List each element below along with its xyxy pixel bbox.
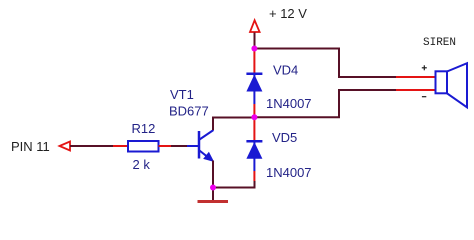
- transistor VT1: [187, 130, 214, 159]
- label plus terminal: [422, 65, 427, 70]
- wire ground stem: [212, 188, 214, 201]
- transistor VT1 emitter arrowhead: [204, 153, 213, 162]
- node J2 junction dot: [251, 114, 257, 120]
- diode VD4: [246, 74, 262, 104]
- wire J1 to siren plus: [255, 49, 397, 78]
- wire VT1 emitter down: [212, 161, 214, 188]
- svg-text:VD4: VD4: [273, 63, 298, 78]
- node J1 junction dot: [251, 46, 257, 52]
- svg-text:2 k: 2 k: [133, 157, 151, 172]
- svg-text:1N4007: 1N4007: [266, 96, 312, 111]
- wire power stem: [254, 33, 256, 49]
- svg-text:VD5: VD5: [272, 130, 297, 145]
- pin siren minus: [396, 89, 436, 91]
- pin R12 right: [159, 145, 172, 147]
- diode VD5 pin top: [253, 119, 255, 141]
- wire VT1 collector to node J2: [213, 118, 255, 131]
- speaker LS1 horn: [447, 63, 467, 107]
- diode VD5 pin bottom: [253, 171, 255, 181]
- svg-text:BD677: BD677: [169, 104, 209, 119]
- wire emitter node to VD5 anode: [213, 181, 255, 188]
- diode VD4 pin bottom: [253, 104, 255, 115]
- pin siren plus: [396, 76, 436, 78]
- wire J2 to siren minus: [255, 90, 397, 117]
- svg-text:VT1: VT1: [170, 87, 194, 102]
- ground: [198, 200, 229, 203]
- resistor R12: [128, 141, 159, 152]
- svg-text:+ 12 V: + 12 V: [269, 6, 307, 21]
- svg-text:R12: R12: [132, 121, 156, 136]
- node J3 junction dot: [210, 185, 216, 191]
- svg-text:PIN 11: PIN 11: [11, 139, 50, 154]
- label minus terminal: [422, 96, 426, 98]
- power terminal arrow +12V: [250, 20, 260, 32]
- pin R12 left: [113, 145, 128, 147]
- terminal arrow PIN 11: [60, 142, 71, 151]
- diode VD5: [246, 141, 262, 171]
- svg-text:1N4007: 1N4007: [266, 165, 312, 180]
- speaker LS1 body: [436, 71, 448, 93]
- wire R12 to VT1 base: [171, 145, 187, 147]
- diode VD4 pin top: [253, 51, 255, 74]
- svg-text:SIREN: SIREN: [423, 37, 456, 49]
- wire PIN11 to R12: [70, 145, 113, 147]
